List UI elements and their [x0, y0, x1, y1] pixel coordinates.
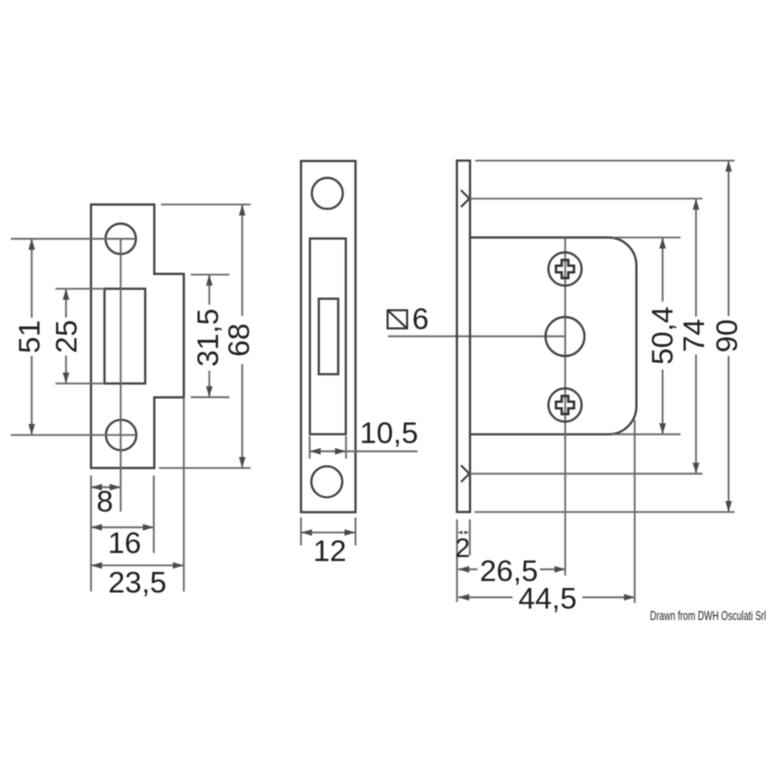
- svg-text:74: 74: [678, 319, 711, 352]
- svg-text:16: 16: [108, 527, 141, 560]
- svg-text:10,5: 10,5: [360, 417, 418, 450]
- svg-text:2: 2: [455, 533, 470, 563]
- svg-text:90: 90: [711, 319, 744, 352]
- svg-text:Drawn from DWH Osculati Srl: Drawn from DWH Osculati Srl: [650, 609, 766, 623]
- svg-text:50,4: 50,4: [646, 306, 679, 364]
- svg-text:68: 68: [223, 323, 256, 356]
- svg-text:25: 25: [51, 320, 84, 353]
- svg-text:8: 8: [96, 486, 113, 519]
- svg-text:31,5: 31,5: [192, 308, 225, 366]
- svg-text:6: 6: [412, 303, 429, 336]
- svg-text:44,5: 44,5: [518, 583, 576, 616]
- svg-text:51: 51: [14, 320, 47, 353]
- svg-text:12: 12: [313, 535, 346, 568]
- svg-text:23,5: 23,5: [108, 567, 166, 600]
